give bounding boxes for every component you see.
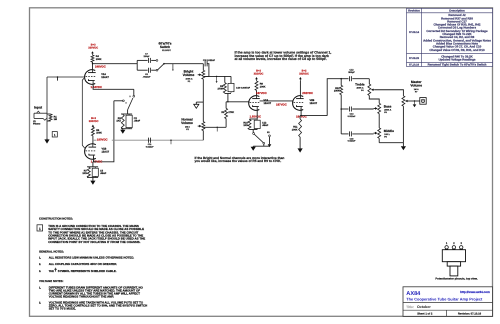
node tick (normal wiper) (217, 127, 218, 128)
resistor R8 100K (V2A plate load) (255, 81, 266, 95)
B+2 node (V2A) (256, 79, 258, 82)
svg-text:1K5: 1K5 (116, 120, 121, 123)
svg-text:2: 2 (130, 95, 131, 98)
node + ground (output) (413, 100, 417, 107)
wire: normal wiper line (204, 126, 226, 128)
capacitor C5 (V1B cathode, box) (92, 167, 107, 178)
svg-text:S1 DPDT: S1 DPDT (162, 49, 172, 52)
svg-text:Treble: Treble (355, 82, 365, 86)
svg-text:12AX7: 12AX7 (264, 102, 272, 105)
chassis note box 1 (52, 132, 57, 137)
resistor R3 (V1A cathode) (116, 114, 132, 129)
svg-text:Potentiometer pinouts, top vie: Potentiometer pinouts, top view. (435, 278, 478, 281)
voltage label 180VDC (96, 138, 112, 141)
wire: treble bottom to bass (369, 96, 379, 104)
svg-text:Bass: Bass (384, 104, 392, 108)
wire: V2A plate to V2B grid (260, 100, 294, 102)
wire: grid of V1A (47, 76, 85, 78)
svg-text:VOLTAGE NOTES:: VOLTAGE NOTES: (39, 279, 64, 283)
svg-text:1M: 1M (54, 118, 57, 121)
wire: master bottom to ground bus (402, 106, 404, 143)
ground (input) (44, 139, 49, 143)
svg-text:Sheet 1 of 2: Sheet 1 of 2 (417, 313, 433, 316)
capacitor C11 0.022uF (146, 138, 154, 149)
svg-text:1.: 1. (39, 256, 41, 259)
triode V2A (249, 95, 272, 110)
capacitor C12 (V2A cathode, box) (254, 119, 269, 130)
svg-text:1.: 1. (39, 286, 41, 289)
svg-text:12AX7: 12AX7 (101, 76, 109, 79)
svg-text:Description: Description (449, 9, 465, 13)
capacitor C7 (60s) (143, 53, 150, 63)
svg-text:100K: 100K (260, 85, 266, 88)
svg-text:THE: THE (49, 270, 54, 273)
resistor R1 1M (47, 114, 57, 121)
svg-text:187VDC: 187VDC (256, 91, 267, 95)
wire: bass bottom to middle (378, 114, 380, 128)
svg-text:Switch: Switch (160, 45, 170, 49)
resistor R10 (V2A cathode) (243, 110, 257, 129)
svg-text:.68uF: .68uF (134, 120, 141, 123)
wire: V2B cathode out (300, 108, 327, 119)
node: grid junction (57, 76, 59, 78)
input jack J1 (33, 111, 47, 125)
wire: input vertical (46, 77, 48, 137)
wire: bright wiper line (204, 75, 231, 77)
capacitor C15 (middle feed) (341, 131, 373, 142)
wire: master wiper to output (409, 100, 420, 102)
B+3 node (V1B) (92, 126, 94, 127)
svg-text:2.: 2. (39, 301, 41, 304)
svg-text:C9 0.022uF: C9 0.022uF (203, 59, 216, 62)
potentiometer Bass (374, 103, 392, 114)
ground (V1A cathode net) (120, 129, 132, 134)
svg-text:ALL COUPLING CAPACITORS 400V O: ALL COUPLING CAPACITORS 400V OR GREATER. (49, 262, 118, 266)
wire: to tone stack (327, 79, 341, 116)
revision table (407, 8, 493, 66)
svg-text:07.10.16: 07.10.16 (409, 63, 420, 66)
resistor R7 (V1B cathode) (82, 157, 98, 178)
svg-text:CONSTRUCTION NOTES:: CONSTRUCTION NOTES: (39, 217, 73, 221)
wire: V1B plate to normal channel (92, 136, 94, 144)
svg-text:07.08.14: 07.08.14 (409, 31, 420, 34)
svg-text:.68uF: .68uF (100, 172, 107, 175)
capacitor C14 (bass feed) (340, 107, 373, 118)
svg-text:500pF: 500pF (348, 71, 355, 74)
wire: pot chain vertical (202, 64, 204, 71)
wire: V1A plate to bright channel (92, 62, 94, 64)
capacitor C8 (70s) (143, 68, 151, 79)
svg-text:.68uF: .68uF (262, 124, 269, 127)
svg-text:.0022uF: .0022uF (143, 75, 151, 78)
note: R5/R9 interaction (195, 156, 285, 163)
ground (volume pots) (194, 102, 204, 108)
switch S1 contacts and lever (156, 60, 165, 72)
svg-text:100K: 100K (292, 128, 298, 131)
potentiometer Middle (374, 128, 395, 139)
svg-text:12AX7: 12AX7 (102, 150, 110, 153)
wire: treble wiper to master (375, 90, 404, 96)
svg-text:3.: 3. (39, 270, 41, 273)
svg-text:248VDC: 248VDC (95, 65, 106, 69)
potentiometer P7 Master Volume (402, 80, 422, 106)
svg-text:Input: Input (34, 106, 43, 110)
svg-text:202VDC: 202VDC (302, 91, 313, 95)
svg-text:1.65VDC: 1.65VDC (250, 114, 262, 118)
svg-text:Phone: Phone (33, 123, 41, 126)
title block (403, 287, 493, 317)
svg-text:The Cooperative Tube Guitar Am: The Cooperative Tube Guitar Amp Project (406, 298, 483, 302)
note: C7/C8 values (235, 51, 332, 61)
wire: V1B grid drop (82, 78, 85, 148)
switch S2 (cathode) (114, 89, 135, 114)
svg-text:332VDC: 332VDC (254, 72, 264, 75)
wire: bright channel main (164, 63, 203, 65)
node tick (S1 pole) (172, 64, 174, 69)
svg-text:Volume: Volume (410, 84, 422, 88)
svg-text:VOLTAGE READINGS THROUGHOUT TH: VOLTAGE READINGS THROUGHOUT THE AMP. (49, 294, 114, 298)
svg-text:C10 0.0047uF: C10 0.0047uF (236, 86, 251, 89)
svg-text:Volume: Volume (183, 73, 195, 77)
svg-text:2.: 2. (39, 263, 41, 266)
wire: V1A cathode (93, 85, 134, 89)
svg-text:you would like, increase the v: you would like, increase the values of R… (195, 159, 282, 163)
svg-text:CONNECTION POINT BY NOT ISOLAT: CONNECTION POINT BY NOT ISOLATING IT FRO… (48, 240, 140, 244)
svg-text:Updated Voltage Readings: Updated Voltage Readings (439, 58, 476, 62)
potentiometer pinout diagram (435, 242, 478, 280)
svg-text:at all volume levels, increase: at all volume levels, increase the value… (235, 57, 327, 61)
svg-text:1.64VDC: 1.64VDC (91, 85, 103, 89)
svg-text:0.022uF: 0.022uF (348, 140, 356, 143)
node: tone stack input (340, 78, 342, 80)
resistor R5 270K (217, 76, 226, 93)
resistor R9 270K (221, 102, 234, 128)
wire: tone stack ground bus (379, 138, 403, 142)
wire: switch throw to V1B cathode (97, 101, 114, 162)
svg-text:12AX7: 12AX7 (310, 102, 318, 105)
svg-text:0.022uF: 0.022uF (348, 115, 356, 118)
svg-text:0.022uF: 0.022uF (146, 145, 154, 148)
triode V1B (85, 143, 110, 159)
potentiometer P2 Normal Volume (181, 118, 205, 131)
svg-text:187VDC: 187VDC (276, 103, 287, 107)
wire: normal pot bottom (202, 131, 204, 141)
svg-text:Revision: Revision (408, 9, 420, 13)
svg-text:330VDC: 330VDC (89, 120, 99, 123)
resistor R11 100K (V2B cathode) (292, 119, 302, 137)
wire: switch branches (137, 60, 156, 70)
svg-text:Middle: Middle (384, 129, 394, 133)
ground (V2A cathode) (251, 144, 270, 151)
capacitor C13 (treble) (341, 69, 369, 82)
svg-text:270K: 270K (217, 88, 223, 91)
svg-text:Renamed Tight Switch To 60's/7: Renamed Tight Switch To 60's/70's Switch (428, 62, 487, 66)
svg-text:220pF: 220pF (143, 55, 150, 58)
svg-text:Title:: Title: (406, 305, 414, 309)
svg-text:AX84: AX84 (406, 291, 421, 297)
svg-text:Volume: Volume (181, 121, 193, 125)
op... triode V1A (85, 69, 110, 84)
triode V2B (293, 95, 318, 110)
svg-text:SET TO 70'S MODE.: SET TO 70'S MODE. (49, 306, 76, 310)
svg-text:Changed Value Of R6, R9, R31,: Changed Value Of R6, R9, R31, and R13 (429, 48, 485, 52)
B+2 node (V2B) (299, 79, 301, 82)
svg-text:1K5: 1K5 (243, 124, 248, 127)
node tick (normal wire) (170, 140, 171, 141)
svg-text:07.08.25: 07.08.25 (409, 57, 420, 60)
switch S3 (boost) (250, 130, 272, 148)
svg-text:1: 1 (39, 227, 41, 231)
svg-text:1K5: 1K5 (82, 172, 87, 175)
ground (V1B cathode) (87, 177, 98, 184)
svg-text:ALL RESISTORS 1/2W MINIMUM UNL: ALL RESISTORS 1/2W MINIMUM UNLESS OTHERW… (49, 255, 135, 259)
resistor R6 100K (V1B plate load) (91, 127, 102, 136)
wire: V2B plate to B+ (299, 81, 301, 95)
svg-text:332VDC: 332VDC (299, 72, 309, 75)
ground (V2B cathode) (298, 137, 303, 153)
resistor R4 100K (V1A plate load) (91, 55, 102, 70)
capacitor C10 (bright, box) (228, 76, 251, 93)
shielded cable symbol glyph (55, 268, 57, 272)
svg-text:100K: 100K (96, 132, 102, 135)
svg-text:GENERAL NOTES:: GENERAL NOTES: (39, 250, 64, 254)
capacitor C2 (box) (126, 114, 141, 129)
svg-text:100K: 100K (334, 90, 340, 93)
wire: C9 output drop (204, 64, 209, 77)
output jack J2 (420, 98, 426, 105)
capacitor C9 0.022uF (203, 59, 216, 67)
wire: mix node to V2A grid (225, 93, 250, 103)
svg-text:SYMBOL REPRESENTS SHIELDED CAB: SYMBOL REPRESENTS SHIELDED CABLE. (58, 269, 117, 273)
construction notes (37, 217, 147, 311)
ground (tone stack) (401, 143, 406, 151)
svg-text:3: 3 (126, 102, 127, 105)
svg-text:180VDC: 180VDC (97, 138, 108, 142)
svg-text:100K: 100K (96, 58, 102, 61)
potentiometer P1 Bright Volume (183, 70, 205, 83)
resistor R12 (slope) (334, 79, 343, 134)
svg-text:330VDC: 330VDC (88, 47, 98, 50)
svg-text:270K: 270K (228, 111, 234, 114)
potentiometer Treble (355, 79, 375, 96)
svg-text:October: October (417, 305, 431, 309)
svg-text:http://www.ax84.com: http://www.ax84.com (460, 290, 490, 294)
node tick (bright wiper) (216, 76, 217, 77)
B+3 node (V1A) (92, 53, 94, 55)
svg-text:Revision: 07.10.16: Revision: 07.10.16 (458, 313, 482, 316)
